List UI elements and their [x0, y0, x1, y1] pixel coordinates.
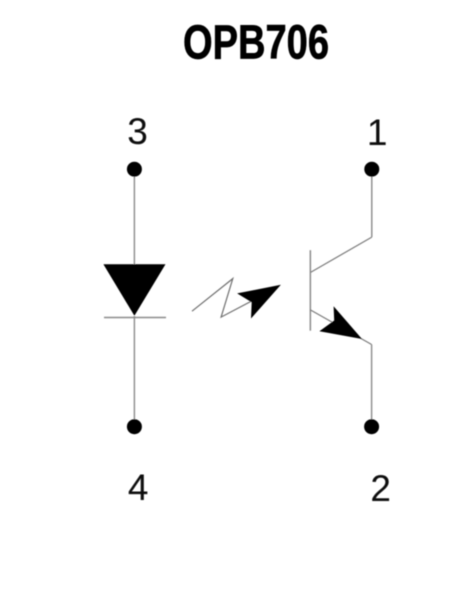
LED D1 anode triangle [103, 264, 165, 316]
svg-text:4: 4 [128, 467, 149, 508]
terminal dot pin 4 [127, 419, 142, 434]
svg-text:3: 3 [127, 111, 148, 152]
svg-text:1: 1 [367, 112, 388, 153]
light ray zigzag [192, 279, 266, 318]
LED D1 cathode bar [104, 317, 166, 319]
light ray arrowhead [237, 285, 281, 319]
transistor Q1 emitter lead [310, 310, 371, 345]
transistor Q1 base bar [309, 250, 311, 331]
terminal dot pin 2 [364, 419, 379, 434]
terminal dot pin 3 [127, 162, 142, 177]
wire cathode: LED to pin 4 [133, 316, 135, 427]
transistor Q1 emitter arrowhead [319, 306, 362, 339]
svg-text:2: 2 [370, 468, 391, 509]
svg-text:OPB706: OPB706 [183, 17, 329, 70]
wire anode: pin 3 to LED [133, 169, 135, 264]
wire emitter: to pin 2 [371, 345, 373, 427]
transistor Q1 collector lead [310, 237, 371, 272]
wire collector: pin 1 down [371, 169, 373, 237]
terminal dot pin 1 [364, 162, 379, 177]
